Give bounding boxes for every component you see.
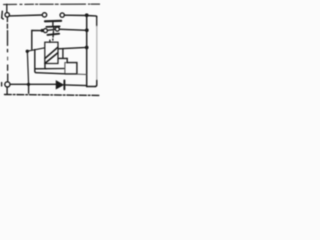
wire load box to inner rail <box>77 73 87 75</box>
load box <box>65 63 67 74</box>
pushbutton S1 stem <box>52 22 54 25</box>
junction dot contact row <box>41 29 44 32</box>
junction dot coil feed corner <box>26 50 29 53</box>
relay contact right circle <box>55 27 59 31</box>
junction dot contact row at rail <box>85 28 89 32</box>
relay coil diagonal 2 <box>45 53 58 64</box>
relay coil K1 box <box>45 42 58 63</box>
pushbutton S1 cap bar <box>46 25 59 27</box>
terminal B circle bottom left <box>5 82 10 87</box>
wire coil right step down <box>62 49 64 59</box>
wire coil bottom stub <box>45 64 46 69</box>
ground chassis dash-dot line <box>5 94 101 97</box>
junction dot coil wire at rail <box>85 46 89 50</box>
wire diode branch left <box>11 83 57 85</box>
wire left branch down <box>35 50 65 74</box>
junction dot right rail top <box>85 13 89 17</box>
relay contact bridge bar <box>48 34 60 35</box>
wire right edge faint vertical <box>96 16 98 26</box>
junction dot bottom left node <box>27 83 30 86</box>
wire drop from rail to terminal A <box>6 4 8 12</box>
wire relay contact row <box>32 29 87 30</box>
wire diode to right node <box>65 84 87 87</box>
left frame remnant tick <box>1 83 3 86</box>
wire bottom node down to ground <box>28 84 30 93</box>
wire stub into load box <box>66 58 68 62</box>
wire coil right to rail <box>58 47 87 48</box>
wire terminal B down <box>6 87 8 93</box>
pushbutton S1 bridge bar <box>45 20 61 23</box>
mechanical dash link relay to contact <box>53 27 54 40</box>
relay coil diagonal 1 <box>45 47 58 58</box>
wire coil bottom horizontal <box>35 68 65 70</box>
wire coil left feed <box>27 48 45 85</box>
wire pushbutton to right rail <box>64 15 96 17</box>
wire coil lower right <box>58 57 67 59</box>
wire contact row corner down <box>31 31 33 50</box>
terminal A circle <box>5 13 9 17</box>
pushbutton S1 left contact <box>42 13 46 17</box>
relay contact left circle <box>43 29 47 33</box>
left margin glyph <box>2 11 4 19</box>
pushbutton S1 right contact <box>60 13 64 17</box>
diode V1 triangle <box>56 81 63 89</box>
wire bottom right connector <box>87 86 96 88</box>
wire dash-dot vertical below terminal A <box>6 18 8 22</box>
relay coil top stub <box>49 40 51 42</box>
diode V1 cathode bar <box>63 80 65 89</box>
wire terminal A to pushbutton <box>10 14 43 17</box>
boundary top dash-dot line <box>4 3 17 5</box>
wire inner right rail <box>86 15 88 86</box>
